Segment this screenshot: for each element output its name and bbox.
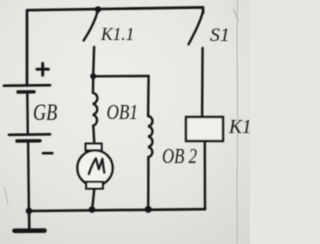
svg-text:ОВ 2: ОВ 2 (162, 145, 197, 168)
svg-text:К1: К1 (228, 116, 250, 138)
switch S1 blade (open, swung left) (189, 14, 203, 45)
inductor OB1 coil (93, 76, 98, 125)
motor M body circle (77, 150, 112, 185)
wire OB1 to motor (93, 126, 94, 144)
switch S1 fixed contact wire down to relay K1 (201, 48, 204, 117)
scan artifact: faint diagonal scratch top right (234, 9, 239, 21)
battery GB cell1 negative short plate (18, 90, 34, 94)
node A: junction dot of K1.1 on top bus (95, 6, 101, 12)
wire relay K1 down to bottom bus corner (204, 141, 207, 209)
node: bottom junction at battery (26, 208, 33, 215)
battery GB cell2 positive long plate (9, 133, 50, 136)
battery GB cell2 negative short plate (17, 139, 40, 143)
wire motor to bottom bus (92, 189, 94, 210)
minus sign of battery (43, 152, 52, 155)
relay K1 coil box (186, 117, 223, 141)
wire: top bus from left corner to S1, with left vertical down to battery + (27, 7, 203, 85)
svg-text:ОВ1: ОВ1 (107, 101, 139, 124)
motor M top brush (86, 144, 102, 151)
inductor OB2 coil (148, 116, 152, 157)
motor M bottom brush (86, 182, 103, 189)
node: OB1 top junction dot (90, 73, 96, 79)
node: bottom junction at motor (89, 206, 96, 213)
scan artifact: faint vertical fold line right side (236, 0, 239, 244)
wire: bottom bus (29, 209, 205, 211)
switch K1.1 blade (open, swung left) (84, 11, 98, 41)
svg-text:GB: GB (33, 101, 58, 125)
svg-text:К1.1: К1.1 (100, 24, 134, 44)
wire: horizontal link from OB1 node to OB2 branch (93, 75, 148, 78)
switch K1.1 fixed contact wire down to OB1 node (92, 47, 95, 76)
scan artifact: faint diagonal scratch bottom left (5, 187, 9, 204)
wire battery negative down to bottom bus (27, 143, 30, 212)
wire OB2 to bottom bus (147, 157, 150, 209)
ground: chassis stem and bar bottom left (28, 211, 31, 229)
plus sign of battery (37, 63, 48, 75)
node: bottom junction at OB2 (145, 206, 152, 213)
svg-text:S1: S1 (210, 25, 230, 46)
wire between battery cells (26, 94, 29, 135)
label M inside motor (hand-drawn italic M) (89, 158, 105, 174)
inductor OB2 branch wire down (147, 76, 150, 116)
battery GB cell1 positive long plate (4, 84, 50, 87)
